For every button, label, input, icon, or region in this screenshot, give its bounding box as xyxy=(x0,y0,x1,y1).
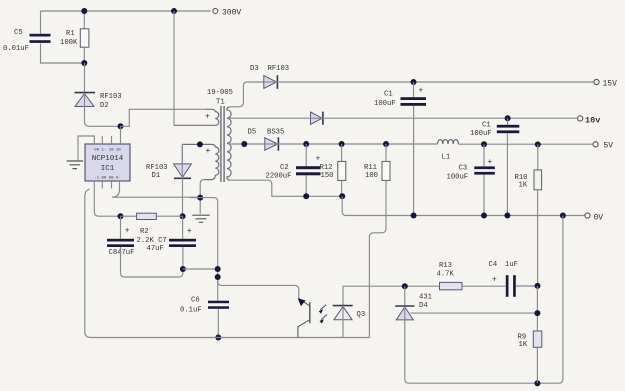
svg-text:D5: D5 xyxy=(248,129,257,137)
wire drain node jog up to primary top xyxy=(121,109,206,126)
node C2 top xyxy=(303,141,309,147)
resistor R9 1K xyxy=(533,331,542,347)
svg-text:1uF: 1uF xyxy=(505,261,518,269)
resistor R2 2.2K xyxy=(121,215,137,217)
svg-text:L1: L1 xyxy=(442,154,451,162)
capacitor C4 1uF xyxy=(506,275,509,297)
node C4/R10 junction xyxy=(535,283,541,289)
node aux ground xyxy=(197,195,203,201)
capacitor C7 47uF xyxy=(182,216,184,238)
node link lower xyxy=(215,274,221,280)
node 300V rail to primary xyxy=(171,8,177,14)
pin IC1 bottom pin6 stub xyxy=(101,181,103,189)
svg-text:100: 100 xyxy=(365,172,378,180)
svg-text:47uF: 47uF xyxy=(147,245,164,253)
svg-text:C1: C1 xyxy=(384,91,393,99)
node R9 top / tap junction xyxy=(534,310,540,316)
terminal 0V xyxy=(585,213,590,218)
pin IC1 top pin4 to drain node xyxy=(120,126,122,144)
svg-text:2200uF: 2200uF xyxy=(266,173,292,181)
wire aux ground node right and down to C6 xyxy=(200,198,218,301)
svg-text:IC1: IC1 xyxy=(101,165,115,173)
pin IC1 top pin3 stub xyxy=(111,136,113,144)
node drain junction xyxy=(118,123,124,129)
wire aux ground node stub left xyxy=(190,197,201,199)
wire down to R9 xyxy=(536,286,538,331)
wire C2 bottom xyxy=(305,175,307,196)
svg-text:BS35: BS35 xyxy=(267,129,284,137)
wire C6 bottom xyxy=(217,309,219,338)
wire 10v line from secondary tap xyxy=(229,117,311,119)
inductor L1 xyxy=(438,140,459,144)
ground IC1 left xyxy=(67,161,84,169)
svg-text:NCP1014: NCP1014 xyxy=(92,155,124,163)
svg-text:0.1uF: 0.1uF xyxy=(180,307,202,315)
svg-text:C3: C3 xyxy=(459,165,468,173)
svg-text:0.01uF: 0.01uF xyxy=(3,45,29,53)
svg-text:D4: D4 xyxy=(419,302,428,310)
svg-text:RF103: RF103 xyxy=(100,93,122,101)
wire link to aux ground drop xyxy=(183,268,218,270)
wire D4 reference tap xyxy=(411,312,538,314)
wire R9 bottom xyxy=(536,347,538,383)
svg-text:C4: C4 xyxy=(489,261,498,269)
svg-text:+: + xyxy=(488,158,493,167)
svg-text:100uF: 100uF xyxy=(374,100,396,108)
svg-text:431: 431 xyxy=(419,294,432,302)
node R10 top xyxy=(535,141,541,147)
wire secondary top to D3 xyxy=(230,82,263,107)
svg-text:T1: T1 xyxy=(216,99,225,107)
transformer secondary winding xyxy=(227,107,231,180)
wire 5V line D5 to L1 xyxy=(278,143,437,145)
wire R10 bottom lead down to C4 node xyxy=(537,190,539,286)
pin IC1 bottom pin7 stub xyxy=(111,181,113,189)
wire D5 line from secondary tap xyxy=(229,143,265,145)
svg-text:0V: 0V xyxy=(594,214,604,223)
pin IC1 bottom pin8 to aux ground xyxy=(112,181,200,197)
node R1 top xyxy=(81,8,87,14)
terminal 10v xyxy=(578,116,583,121)
svg-text:+: + xyxy=(187,227,192,236)
node C3 top xyxy=(481,141,487,147)
resistor R10 1K xyxy=(537,144,539,169)
node R2 right / D1 bottom xyxy=(180,213,186,219)
wire secondary bottom to ground rail xyxy=(230,180,342,196)
node R11 top xyxy=(383,141,389,147)
capacitor C5 xyxy=(30,34,51,37)
transformer T1 core xyxy=(221,106,224,182)
op-amp IC1 NCP1014 body xyxy=(85,144,130,181)
capacitor C3 100uF xyxy=(483,144,485,166)
wire R1 bottom lead xyxy=(83,47,85,63)
diode opto LED xyxy=(342,286,344,320)
node R12 bottom xyxy=(339,193,345,199)
transformer primary winding xyxy=(174,109,219,125)
node C6 bottom xyxy=(215,335,221,341)
node R9 bottom xyxy=(534,380,540,386)
wire C8 bottom U-link xyxy=(121,247,183,277)
svg-text:+: + xyxy=(492,276,497,285)
svg-text:R12: R12 xyxy=(320,164,333,172)
node R12 top xyxy=(339,141,345,147)
pin IC1 top pin1 to ground xyxy=(78,136,94,160)
svg-text:5V: 5V xyxy=(604,142,614,151)
svg-text:+: + xyxy=(205,113,210,122)
ground transformer xyxy=(192,215,209,222)
svg-text:2.2K C7: 2.2K C7 xyxy=(137,237,167,245)
node link upper xyxy=(215,266,221,272)
wire C7 bottom xyxy=(182,247,184,269)
svg-text:RF103: RF103 xyxy=(146,164,168,172)
wire R11 bottom long lead down to bottom rail xyxy=(369,180,386,337)
wire D4 anode down to bottom loop xyxy=(405,216,563,384)
svg-text:R13: R13 xyxy=(439,262,452,270)
terminal 15V xyxy=(594,79,599,84)
wire aux winding bottom down to ground node xyxy=(200,180,204,214)
node C3 bottom on 0V xyxy=(481,213,487,219)
capacitor C2 2200uF xyxy=(305,144,307,166)
node secondary D5 tap xyxy=(241,141,247,147)
svg-text:10v: 10v xyxy=(585,116,600,126)
wire IC left long drop to bottom rail xyxy=(85,189,91,338)
svg-text:Q3: Q3 xyxy=(357,311,366,319)
wire C3 bottom to 0V xyxy=(483,175,485,216)
node C1a bottom on 0V xyxy=(411,213,417,219)
wire D2 anode down and right to drain node xyxy=(85,107,121,127)
svg-text:D3: D3 xyxy=(250,65,259,73)
capacitor C1a 100uF xyxy=(413,82,415,97)
svg-text:100uF: 100uF xyxy=(447,174,469,182)
wire 15V rail xyxy=(277,81,593,83)
node C1b bottom on 0V xyxy=(504,213,510,219)
svg-text:+: + xyxy=(125,227,130,236)
svg-text:+: + xyxy=(206,147,211,156)
terminal 300V xyxy=(213,9,218,14)
pin IC1 top pin2 stub xyxy=(101,136,103,144)
wire to opto collector xyxy=(218,281,299,298)
terminal 5V xyxy=(593,142,598,147)
svg-text:-1 00 00 0-: -1 00 00 0- xyxy=(94,177,120,181)
svg-text:C2: C2 xyxy=(280,164,289,172)
svg-text:15V: 15V xyxy=(603,80,618,89)
wire ground rail corner down to 0V rail xyxy=(342,196,584,215)
capacitor C1b 100uF xyxy=(507,118,509,124)
node C7/C8 bottom junction xyxy=(180,266,186,272)
wire feedback line R13 row xyxy=(343,285,439,287)
svg-text:D2: D2 xyxy=(100,102,109,110)
svg-text:C847uF: C847uF xyxy=(109,249,135,257)
wire C1b bottom lead to 0V rail xyxy=(506,133,508,215)
transistor Q3 opto phototransistor xyxy=(299,299,310,306)
wire R1 bottom to D2 xyxy=(84,63,86,92)
capacitor C6 0.1uF xyxy=(208,301,229,304)
svg-text:D1: D1 xyxy=(152,172,161,180)
wire R1 top lead xyxy=(83,11,85,29)
wire 300V top rail xyxy=(41,10,211,12)
svg-text:C5: C5 xyxy=(14,29,23,37)
svg-text:+: + xyxy=(419,87,424,96)
resistor R12 150 xyxy=(341,144,343,161)
wire C4 to R10 node xyxy=(516,285,538,287)
opto light arrows xyxy=(320,305,327,320)
capacitor C8 47uF xyxy=(120,216,122,238)
svg-text:300V: 300V xyxy=(222,8,241,17)
svg-text:R2: R2 xyxy=(140,228,149,236)
node aux winding top junction xyxy=(197,141,203,147)
svg-text:+: + xyxy=(316,155,321,164)
wire C1a bottom lead to 0V rail xyxy=(413,106,415,216)
node C2 bottom xyxy=(303,193,309,199)
svg-text:00 1- 10 10: 00 1- 10 10 xyxy=(94,149,121,153)
svg-text:100uF: 100uF xyxy=(470,130,492,138)
node feedback riser on 0V xyxy=(560,213,566,219)
svg-text:100K: 100K xyxy=(60,39,78,47)
diode D6 (10v rectifier) xyxy=(311,112,323,124)
resistor R1 xyxy=(80,29,89,47)
wire C5 bottom to R1 bottom node xyxy=(41,44,85,64)
node C1a top on 15V rail xyxy=(411,79,417,85)
resistor R13 4.7K xyxy=(440,282,463,289)
wire 300V rail down to primary bottom xyxy=(173,11,175,125)
wire 5V rail after L1 xyxy=(458,143,592,145)
node C1b top on 10v rail xyxy=(505,115,511,121)
svg-text:C1: C1 xyxy=(482,122,491,130)
svg-text:R11: R11 xyxy=(364,164,377,172)
pin IC1 bottom pin5 to R2 node xyxy=(94,181,120,216)
svg-text:4.7K: 4.7K xyxy=(437,271,455,279)
svg-text:19-005: 19-005 xyxy=(207,89,233,97)
wire C5 left drop from rail xyxy=(40,11,42,34)
wire bottom rail xyxy=(91,337,370,339)
wire R13 to C4 xyxy=(462,285,506,287)
node D4 top xyxy=(402,283,408,289)
svg-text:C6: C6 xyxy=(191,297,200,305)
svg-text:R1: R1 xyxy=(66,30,75,38)
transformer aux winding xyxy=(182,144,219,179)
svg-text:1K: 1K xyxy=(519,182,528,190)
svg-text:RF103: RF103 xyxy=(268,65,290,73)
resistor R11 100 xyxy=(385,144,387,161)
svg-text:150: 150 xyxy=(321,172,334,180)
node R1 bottom xyxy=(81,60,87,66)
wire 10v rail xyxy=(323,117,577,119)
svg-text:1K: 1K xyxy=(519,341,528,349)
node R2 left xyxy=(118,213,124,219)
diode D2 RF103 xyxy=(75,92,96,94)
